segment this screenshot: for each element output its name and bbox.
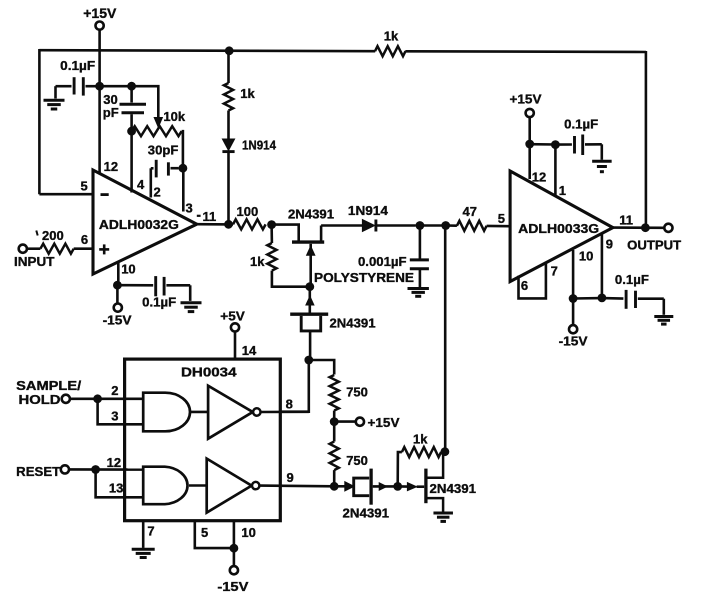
label pin 3 bbox=[111, 408, 118, 423]
capacitor 0.1uF (op2 V+ bypass) bbox=[555, 116, 601, 159]
svg-text:OUTPUT: OUTPUT bbox=[627, 238, 681, 253]
AND gate B bbox=[143, 467, 187, 505]
label pin 12 (op2) bbox=[532, 169, 546, 184]
resistor 1k (Q1 gate) bbox=[250, 225, 310, 287]
junction 30pF top bbox=[127, 82, 136, 91]
svg-text:10: 10 bbox=[241, 525, 255, 540]
power terminal +15V (mid) bbox=[334, 415, 400, 430]
svg-text:HOLD: HOLD bbox=[19, 392, 61, 407]
svg-text:ADLH0032G: ADLH0032G bbox=[99, 217, 179, 232]
capacitor 30pF (integrator) bbox=[103, 86, 146, 131]
svg-text:0.1µF: 0.1µF bbox=[60, 58, 95, 73]
wire pin 2 bbox=[150, 168, 153, 197]
svg-text:+15V: +15V bbox=[368, 415, 400, 430]
junction op1 V+ node bbox=[95, 82, 104, 91]
wire pin 9 (op2) bbox=[601, 234, 604, 298]
wire sample to pin 3 bbox=[98, 399, 144, 425]
wire feedback bus down to output bbox=[645, 51, 648, 228]
wire 10k right to 30pF-2 bbox=[182, 131, 183, 168]
wire gate node to Q2 bbox=[306, 287, 314, 313]
svg-text:13: 13 bbox=[109, 480, 123, 495]
label pin 5 bbox=[81, 178, 88, 193]
svg-text:3: 3 bbox=[186, 201, 193, 216]
junction Q4 drain net node bbox=[441, 221, 450, 230]
power terminal -15V (op2) bbox=[559, 299, 588, 349]
svg-text:8: 8 bbox=[286, 397, 293, 412]
wire pin 9 net bbox=[259, 484, 334, 487]
junction op1 output node bbox=[224, 220, 233, 229]
junction output node bbox=[641, 223, 650, 232]
svg-text:5: 5 bbox=[201, 525, 208, 540]
wire pin 4 bbox=[130, 131, 133, 192]
wire pin 10 bbox=[117, 263, 120, 285]
wire feedback into pin 5 bbox=[39, 193, 93, 196]
junction reset node bbox=[91, 465, 100, 474]
AND gate A bbox=[143, 393, 190, 432]
svg-text:-15V: -15V bbox=[559, 334, 588, 349]
wire pin 10 (op2) bbox=[572, 250, 575, 299]
wire hold node down to Q4 bbox=[444, 226, 447, 452]
IC DH0034 outline bbox=[125, 359, 281, 521]
wire pin 12 (op2) bbox=[528, 144, 531, 179]
power terminal +15V (top left) bbox=[83, 5, 117, 30]
svg-text:-15V: -15V bbox=[103, 312, 132, 327]
label pin 13 (DH) bbox=[109, 480, 123, 495]
diode 1N914 (series) bbox=[348, 203, 416, 232]
svg-text:1k: 1k bbox=[413, 431, 428, 446]
wire pin 10 / -15V terminal bbox=[234, 521, 256, 566]
wire pin 5 bbox=[195, 521, 234, 548]
junction Q2 / pin 8 node bbox=[304, 356, 313, 365]
wire pin 1 (op2) bbox=[554, 145, 557, 196]
wire node to 750 bbox=[309, 360, 334, 375]
label pin 12 bbox=[104, 159, 118, 174]
svg-text:0.001µF: 0.001µF bbox=[358, 254, 407, 269]
svg-text:200: 200 bbox=[42, 228, 64, 243]
svg-text:750: 750 bbox=[346, 385, 368, 400]
svg-text:12: 12 bbox=[104, 159, 118, 174]
svg-text:0.1µF: 0.1µF bbox=[615, 272, 649, 287]
wire left frame vertical bbox=[38, 49, 41, 194]
junction Q1 gate node bbox=[305, 282, 314, 291]
junction 750 mid node bbox=[330, 417, 339, 426]
label pin 10 bbox=[121, 262, 135, 277]
svg-text:2: 2 bbox=[111, 383, 118, 398]
capacitor 30pF (pins 2-3) bbox=[148, 143, 179, 178]
svg-text:+15V: +15V bbox=[510, 91, 542, 106]
junction top bus / clamp branch bbox=[225, 46, 234, 55]
svg-text:6: 6 bbox=[81, 232, 88, 247]
junction op2 V+ node bbox=[525, 140, 534, 149]
junction 30pF-2 right / pin 3 bbox=[179, 164, 188, 173]
svg-text:6: 6 bbox=[521, 278, 528, 293]
wire AND-A to buffer A bbox=[190, 411, 208, 414]
transistor Q3 2N4391 (reset switch) bbox=[334, 469, 394, 521]
svg-text:30pF: 30pF bbox=[148, 143, 179, 158]
svg-text:2N4391: 2N4391 bbox=[330, 315, 376, 330]
label pin 2 bbox=[111, 383, 118, 398]
wire V+ to pin1 node bbox=[530, 143, 556, 146]
ground (op2 top) bbox=[592, 161, 612, 171]
power terminal -15V (DH0034) bbox=[217, 566, 248, 594]
svg-text:5: 5 bbox=[498, 211, 505, 226]
capacitor 0.001uF polystyrene bbox=[314, 226, 429, 288]
svg-text:INPUT: INPUT bbox=[14, 254, 55, 269]
SAMPLE/HOLD input terminal bbox=[16, 378, 143, 407]
wire op1 output bbox=[197, 223, 233, 226]
junction sample node bbox=[93, 394, 102, 403]
label pin 12 (DH) bbox=[107, 455, 121, 470]
svg-text:5: 5 bbox=[81, 178, 88, 193]
svg-text:7: 7 bbox=[551, 263, 558, 278]
label 1k feedback bbox=[384, 29, 399, 44]
RESET input terminal bbox=[16, 464, 143, 479]
svg-text:750: 750 bbox=[346, 453, 368, 468]
buffer B bbox=[207, 459, 260, 513]
svg-text:12: 12 bbox=[107, 455, 121, 470]
input terminal bbox=[14, 245, 55, 270]
resistor 750 (lower) bbox=[330, 422, 368, 487]
svg-text:7: 7 bbox=[147, 524, 154, 539]
junction hold-cap node bbox=[416, 221, 425, 230]
transistor Q2 2N4391 (hold switch) bbox=[290, 314, 375, 360]
svg-text:10k: 10k bbox=[163, 109, 185, 124]
junction op1 V- node bbox=[113, 281, 122, 290]
svg-text:100: 100 bbox=[237, 204, 259, 219]
wire +15V / pin 12 vertical bbox=[98, 30, 101, 175]
10k wiper arrow bbox=[154, 118, 162, 128]
junction 100/Q1 node bbox=[267, 220, 276, 229]
svg-text:1N914: 1N914 bbox=[242, 137, 277, 152]
svg-text:9: 9 bbox=[606, 236, 613, 251]
svg-text:47: 47 bbox=[463, 204, 477, 219]
svg-text:0.1µF: 0.1µF bbox=[564, 116, 598, 131]
junction 750 / pin 9 node bbox=[330, 482, 339, 491]
label pin 1 (op2) bbox=[559, 183, 566, 198]
label pin 2 bbox=[154, 185, 161, 200]
ground (pin 7) bbox=[132, 549, 155, 557]
svg-text:3: 3 bbox=[111, 408, 118, 423]
resistor 100 bbox=[233, 204, 266, 229]
svg-text:+15V: +15V bbox=[83, 5, 117, 21]
junction pins 5-10 bbox=[230, 544, 239, 553]
resistor 1k (feedback) bbox=[375, 46, 406, 56]
capacitor 0.1uF (op2 V- bypass) bbox=[573, 272, 664, 315]
op-amp U1 ADLH0032G bbox=[93, 170, 197, 274]
resistor 1k (Q4 gate-drain) bbox=[398, 431, 445, 486]
svg-text:1N914: 1N914 bbox=[348, 203, 389, 218]
svg-text:9: 9 bbox=[287, 470, 294, 485]
ground (Q4 source) bbox=[433, 513, 453, 521]
label pin 8 bbox=[286, 397, 293, 412]
svg-text:10: 10 bbox=[579, 248, 593, 263]
wire to 47 node bbox=[420, 224, 442, 227]
potentiometer 10k bbox=[132, 109, 186, 136]
transistor Q4 2N4391 (clamp) bbox=[398, 452, 476, 512]
wire Q1 source to diode bbox=[321, 224, 362, 227]
svg-text:1: 1 bbox=[559, 183, 566, 198]
wire reset to pin 13 bbox=[96, 470, 144, 498]
svg-text:4: 4 bbox=[137, 177, 145, 192]
transistor Q1 2N4391 (series switch) bbox=[272, 206, 334, 286]
svg-text:SAMPLE/: SAMPLE/ bbox=[16, 378, 81, 393]
wire pin 8 bbox=[261, 410, 309, 413]
svg-text:+5V: +5V bbox=[220, 308, 245, 323]
svg-text:14: 14 bbox=[242, 343, 257, 358]
svg-text:-15V: -15V bbox=[217, 579, 248, 594]
label pin 11 (op2) bbox=[619, 212, 633, 227]
wire top feedback bus (right) bbox=[405, 50, 646, 53]
ground (op1 V+ bypass) bbox=[44, 86, 65, 109]
svg-text:2: 2 bbox=[154, 185, 161, 200]
junction Q4 drain / 1k node bbox=[441, 447, 450, 456]
svg-text:DH0034: DH0034 bbox=[181, 364, 237, 379]
label pin 5 (op2) bbox=[498, 211, 505, 226]
svg-text:10: 10 bbox=[121, 262, 135, 277]
junction pin 1 node bbox=[551, 140, 560, 149]
junction Q3/Q4 gate node bbox=[393, 482, 402, 491]
svg-text:pF: pF bbox=[103, 105, 119, 120]
junction pin 9 node bbox=[598, 294, 607, 303]
svg-text:1k: 1k bbox=[384, 29, 399, 44]
wire pin 3 bbox=[182, 168, 185, 211]
junction 30pF bottom / pin 4 bbox=[127, 127, 136, 136]
wire AND-B to buffer B bbox=[189, 484, 207, 487]
label pin 7 (op2) bbox=[551, 263, 558, 278]
ground (op1 V- bypass) bbox=[181, 303, 202, 312]
wire pin 8 net bbox=[280, 360, 308, 412]
buffer A bbox=[208, 386, 260, 439]
ground (hold cap) bbox=[408, 289, 429, 297]
svg-text:2N4391: 2N4391 bbox=[430, 482, 477, 496]
svg-text:11: 11 bbox=[203, 209, 217, 224]
wire top feedback bus (left) bbox=[39, 50, 375, 51]
label pin 10 (op2) bbox=[579, 248, 593, 263]
svg-text:11: 11 bbox=[619, 212, 633, 227]
wire V+ node to 30pF bbox=[100, 85, 132, 88]
ground (op2 bottom) bbox=[654, 317, 673, 325]
wire pin 7 + label bbox=[143, 521, 154, 548]
label pin 6 bbox=[81, 232, 88, 247]
svg-text:12: 12 bbox=[532, 169, 546, 184]
op-amp U2 ADLH0033G bbox=[510, 171, 613, 282]
label pin 9 (op2) bbox=[606, 236, 613, 251]
svg-text:2N4391: 2N4391 bbox=[288, 206, 334, 221]
label pin 14 bbox=[242, 343, 257, 358]
power terminal +15V (op2) bbox=[510, 91, 542, 144]
wire to 10k wiper bbox=[132, 86, 159, 119]
svg-text:1k: 1k bbox=[240, 86, 255, 101]
resistor 1k (clamp, vertical) bbox=[224, 51, 256, 139]
capacitor 0.1uF (op1 V- bypass) bbox=[117, 276, 190, 310]
power terminal +5V bbox=[220, 308, 245, 359]
wire pins 6-7 tie bbox=[519, 262, 546, 299]
junction op2 V- node bbox=[569, 294, 578, 303]
svg-text:RESET: RESET bbox=[16, 464, 60, 479]
svg-text:ADLH0033G: ADLH0033G bbox=[518, 221, 599, 236]
svg-text:POLYSTYRENE: POLYSTYRENE bbox=[314, 271, 414, 285]
label pin 11 bbox=[197, 209, 216, 224]
label pin 4 bbox=[137, 177, 145, 192]
label pin 3 bbox=[186, 201, 193, 216]
svg-text:0.1µF: 0.1µF bbox=[142, 295, 176, 310]
label pin 6 (op2) bbox=[521, 278, 528, 293]
label pin 9 (DH) bbox=[287, 470, 294, 485]
capacitor 0.1uF (op1 V+ bypass) bbox=[56, 58, 100, 96]
svg-text:1k: 1k bbox=[250, 254, 265, 269]
resistor 750 (upper) bbox=[330, 375, 368, 422]
power terminal -15V (op1) bbox=[103, 285, 132, 327]
svg-text:2N4391: 2N4391 bbox=[343, 505, 390, 520]
diode 1N914 (clamp) bbox=[222, 137, 276, 224]
output terminal bbox=[627, 224, 681, 253]
wire op2 output bbox=[613, 226, 665, 229]
resistor 200 (input) bbox=[27, 228, 93, 254]
resistor 47 bbox=[446, 204, 511, 231]
